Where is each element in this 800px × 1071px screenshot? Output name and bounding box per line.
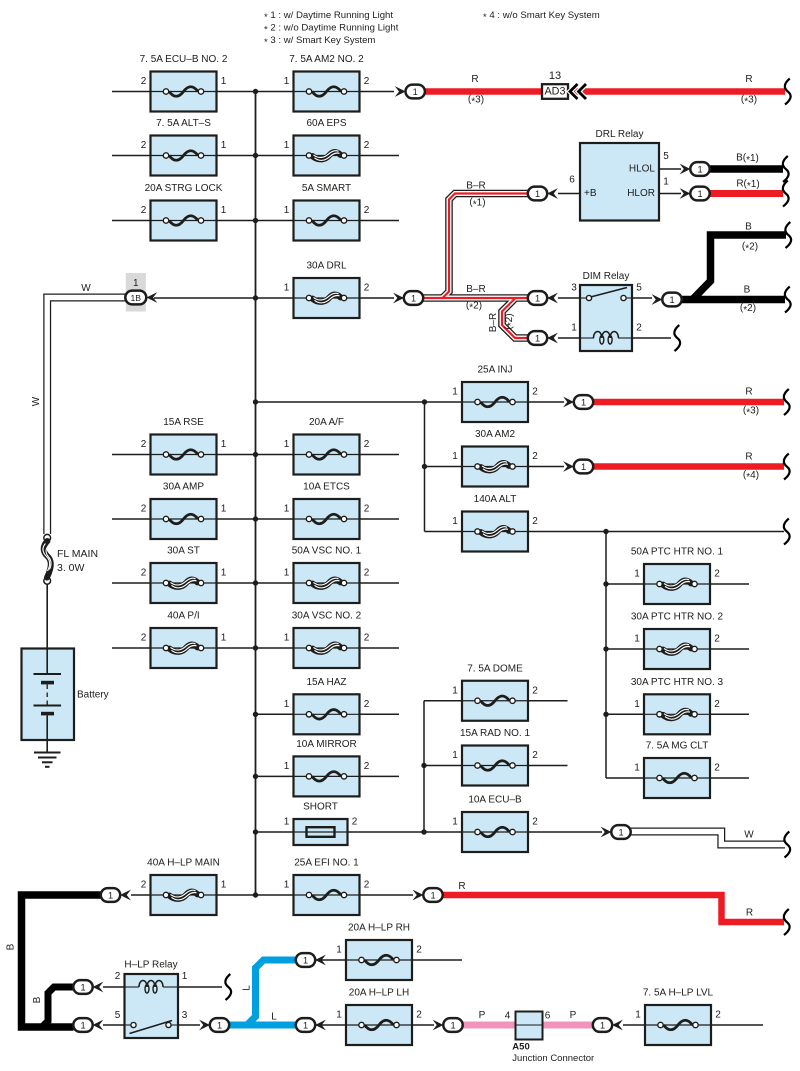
svg-text:50A PTC HTR NO. 1: 50A PTC HTR NO. 1 bbox=[631, 547, 724, 558]
wire H-LP LH input bbox=[316, 1024, 346, 1026]
wire row P-I/VSC2 bbox=[112, 647, 399, 649]
break R AM2 end bbox=[784, 454, 790, 480]
fuse F9 7. 5A AM2 NO. 2 bbox=[284, 54, 370, 112]
svg-text:W: W bbox=[31, 396, 42, 406]
fuse F22 30A AM2 bbox=[452, 429, 538, 487]
wire DRL fuse output to arrow bbox=[360, 297, 395, 299]
break R INJ end bbox=[784, 389, 790, 415]
svg-text:R: R bbox=[745, 452, 752, 463]
svg-text:7. 5A MG CLT: 7. 5A MG CLT bbox=[646, 741, 709, 752]
wire RAD input bbox=[424, 765, 462, 767]
svg-text:1: 1 bbox=[284, 439, 290, 450]
wire A50 internal bus bbox=[516, 1024, 543, 1026]
svg-text:2: 2 bbox=[141, 439, 147, 450]
svg-text:B: B bbox=[745, 222, 752, 233]
wire H-LP relay pin1 to break bbox=[178, 986, 222, 988]
svg-text:DIM Relay: DIM Relay bbox=[583, 271, 630, 282]
svg-text:R: R bbox=[746, 908, 753, 919]
connector 1 black to relay pin5 bbox=[73, 1018, 103, 1032]
svg-text:1: 1 bbox=[669, 295, 674, 305]
svg-text:AD3: AD3 bbox=[544, 86, 565, 98]
wire PTC2 input bbox=[606, 648, 644, 650]
fuse F24 7. 5A DOME bbox=[452, 663, 538, 721]
wire H-LP relay pin2 bbox=[103, 986, 125, 988]
wire R after 25A EFI bbox=[443, 895, 785, 922]
junction dot (255.5,776.4) bbox=[253, 774, 258, 779]
wire R (*3) after 25A INJ bbox=[593, 399, 784, 406]
svg-text:R: R bbox=[458, 881, 465, 892]
connector 1B with gray background bbox=[125, 273, 146, 312]
svg-text:2: 2 bbox=[364, 504, 370, 515]
junction dot (606,584) bbox=[603, 581, 608, 586]
svg-text:1: 1 bbox=[634, 569, 640, 580]
svg-text:HLOR: HLOR bbox=[627, 188, 655, 199]
svg-text:25A INJ: 25A INJ bbox=[477, 365, 512, 376]
connector 1 EFI red out bbox=[413, 888, 443, 902]
svg-text:B(*1): B(*1) bbox=[736, 153, 759, 166]
wire H-LP MAIN left to arrow bbox=[131, 894, 151, 896]
svg-text:P: P bbox=[570, 1010, 577, 1021]
fusible link FL MAIN 3.0W bbox=[43, 534, 98, 584]
wire H-LP MAIN right to bus bbox=[217, 894, 256, 896]
fuse F3 20A STRG LOCK bbox=[141, 183, 227, 241]
wire DRL relay pin1 HLOR bbox=[659, 193, 681, 195]
svg-text:1: 1 bbox=[430, 890, 435, 900]
fuse F26 10A ECU–B bbox=[452, 795, 538, 853]
junction dot (255.5,648) bbox=[253, 645, 258, 650]
battery bbox=[22, 649, 109, 741]
junction dot (255.5,714.3) bbox=[253, 712, 258, 717]
svg-text:(*2): (*2) bbox=[466, 300, 482, 313]
wire SHORT row to ECU-B bbox=[256, 831, 463, 833]
connector 1 AM2 red out bbox=[563, 460, 593, 474]
svg-text:DRL Relay: DRL Relay bbox=[596, 129, 644, 140]
svg-text:7. 5A ECU–B NO. 2: 7. 5A ECU–B NO. 2 bbox=[140, 54, 228, 65]
svg-text:20A STRG LOCK: 20A STRG LOCK bbox=[145, 183, 223, 194]
junction dot (606,531.5) bbox=[603, 529, 608, 534]
wire INJ output bbox=[529, 401, 565, 403]
connector 1 DRL fuse out bbox=[393, 291, 423, 305]
fuse F8 40A H–LP MAIN bbox=[141, 858, 227, 916]
wire row AMP/ETCS bbox=[112, 518, 399, 520]
svg-text:2: 2 bbox=[141, 504, 147, 515]
svg-text:2: 2 bbox=[364, 699, 370, 710]
svg-text:10A MIRROR: 10A MIRROR bbox=[296, 739, 357, 750]
svg-text:W: W bbox=[744, 830, 754, 841]
wire DIM relay pin5 bbox=[632, 297, 652, 299]
fuse F18 10A MIRROR bbox=[284, 739, 370, 797]
svg-text:1: 1 bbox=[284, 699, 290, 710]
ground symbol bbox=[34, 740, 61, 767]
fuse F30 7. 5A MG CLT bbox=[634, 741, 720, 799]
fuse F27 50A PTC HTR NO. 1 bbox=[631, 547, 724, 605]
fuse F29 30A PTC HTR NO. 3 bbox=[631, 677, 724, 735]
wire L blue from relay pin3 bbox=[229, 1022, 296, 1029]
connector 1 DRL HLOL out bbox=[680, 162, 710, 176]
wire EFI row from bus bbox=[256, 894, 361, 896]
svg-text:1: 1 bbox=[452, 817, 458, 828]
sub-bus C vertical PTC feed bbox=[605, 532, 607, 779]
connector 1 H-LP MAIN black out bbox=[101, 888, 131, 902]
svg-text:1: 1 bbox=[221, 504, 227, 515]
svg-text:3. 0W: 3. 0W bbox=[57, 562, 85, 574]
svg-text:7. 5A ALT–S: 7. 5A ALT–S bbox=[156, 118, 211, 129]
junction dot (424,765.5) bbox=[421, 763, 426, 768]
wire PTC2 output bbox=[711, 648, 750, 650]
svg-text:Battery: Battery bbox=[77, 690, 109, 701]
connector 1 row1 red out bbox=[395, 85, 425, 99]
junction dot (606,714.3) bbox=[603, 712, 608, 717]
break top red right end bbox=[785, 79, 791, 105]
svg-text:B: B bbox=[6, 943, 17, 950]
svg-text:30A ST: 30A ST bbox=[167, 546, 200, 557]
svg-text:1: 1 bbox=[581, 397, 586, 407]
wire PTC1 output bbox=[711, 583, 750, 585]
svg-text:1: 1 bbox=[634, 763, 640, 774]
svg-text:40A H–LP MAIN: 40A H–LP MAIN bbox=[147, 858, 220, 869]
svg-text:3: 3 bbox=[182, 1010, 188, 1021]
svg-text:B–R: B–R bbox=[466, 181, 485, 192]
svg-text:1: 1 bbox=[452, 685, 458, 696]
svg-text:15A RAD NO. 1: 15A RAD NO. 1 bbox=[460, 728, 530, 739]
junction dot (255.5,895) bbox=[253, 892, 258, 897]
wire row3 STRG/SMART bbox=[112, 220, 399, 222]
wire L blue branch up to H-LP RH bbox=[247, 960, 296, 1025]
fuse F19 SHORT bbox=[284, 802, 358, 846]
connector A50 junction connector bbox=[505, 1011, 594, 1065]
svg-text:+B: +B bbox=[584, 188, 597, 199]
svg-text:1: 1 bbox=[108, 890, 113, 900]
svg-text:1: 1 bbox=[284, 504, 290, 515]
fuse F10 60A EPS bbox=[284, 118, 370, 176]
svg-text:1: 1 bbox=[284, 817, 290, 828]
svg-text:1: 1 bbox=[221, 439, 227, 450]
fuse F32 20A H–LP LH bbox=[336, 988, 422, 1046]
wire H-LP LVL input bbox=[623, 1024, 645, 1026]
svg-text:1: 1 bbox=[284, 568, 290, 579]
svg-text:60A EPS: 60A EPS bbox=[306, 118, 346, 129]
fuse F31 20A H–LP RH bbox=[336, 923, 422, 981]
svg-text:1: 1 bbox=[221, 76, 227, 87]
junction dot (255.5,155.5) bbox=[253, 153, 258, 158]
svg-text:2: 2 bbox=[364, 140, 370, 151]
svg-text:R: R bbox=[471, 74, 478, 85]
wire R (*3) top red row1 left segment bbox=[424, 88, 542, 95]
break B (*2) upper right end bbox=[785, 222, 791, 248]
wire H-LP RH input bbox=[316, 959, 346, 961]
connector 1 blue to H-LP RH bbox=[296, 953, 326, 967]
svg-text:2: 2 bbox=[715, 1010, 721, 1021]
svg-text:(*2): (*2) bbox=[740, 303, 756, 316]
svg-text:1: 1 bbox=[697, 164, 702, 174]
wire P pink from A50 to oval bbox=[543, 1022, 594, 1029]
svg-text:5: 5 bbox=[636, 283, 642, 294]
svg-text:2: 2 bbox=[364, 568, 370, 579]
connector 1 pink to H-LP LVL bbox=[593, 1018, 623, 1032]
svg-text:2: 2 bbox=[532, 750, 538, 761]
fuse F14 10A ETCS bbox=[284, 482, 370, 540]
svg-text:(*2): (*2) bbox=[504, 313, 517, 329]
svg-text:B–R: B–R bbox=[488, 313, 499, 332]
fuse F21 25A INJ bbox=[452, 365, 538, 423]
svg-text:2: 2 bbox=[532, 451, 538, 462]
svg-text:2: 2 bbox=[364, 283, 370, 294]
svg-text:2: 2 bbox=[141, 880, 147, 891]
svg-text:1: 1 bbox=[221, 140, 227, 151]
wire main bus vertical bbox=[255, 92, 257, 896]
svg-text:1: 1 bbox=[663, 177, 669, 188]
wire B from H-LP MAIN down to H-LP relay bbox=[22, 895, 102, 1027]
svg-text:2: 2 bbox=[532, 817, 538, 828]
junction dot (424.5,466.5) bbox=[422, 464, 427, 469]
wire H-LP RH output stub bbox=[412, 959, 462, 961]
svg-text:1: 1 bbox=[535, 293, 540, 303]
wire H-LP relay pin3 to arrow bbox=[178, 1024, 200, 1026]
wire B(*1) from DRL HLOL bbox=[710, 165, 784, 173]
fuse F4 15A RSE bbox=[141, 417, 227, 475]
junction dot (255.5,91.5) bbox=[253, 89, 258, 94]
svg-text:1: 1 bbox=[571, 323, 577, 334]
connector 1 relay pin3 blue out bbox=[199, 1018, 229, 1032]
svg-text:1: 1 bbox=[450, 1020, 455, 1030]
wire ALT output long bbox=[529, 531, 785, 533]
break R(*1) end bbox=[783, 181, 789, 207]
fuse F13 20A A/F bbox=[284, 417, 370, 475]
wire EFI output bbox=[360, 894, 414, 896]
fuse F25 15A RAD NO. 1 bbox=[452, 728, 538, 786]
svg-text:140A ALT: 140A ALT bbox=[474, 494, 517, 505]
svg-text:2: 2 bbox=[714, 763, 720, 774]
break B (*2) lower right end bbox=[785, 287, 791, 313]
junction dot (255.5,298) bbox=[253, 295, 258, 300]
svg-text:13: 13 bbox=[549, 70, 561, 82]
connector 1 blue to H-LP LH bbox=[296, 1018, 326, 1032]
svg-text:1: 1 bbox=[221, 880, 227, 891]
wire PTC3 output bbox=[711, 713, 750, 715]
svg-text:2: 2 bbox=[364, 633, 370, 644]
wire row2 ALT-S/EPS bbox=[112, 155, 399, 157]
svg-text:2: 2 bbox=[714, 634, 720, 645]
svg-text:25A EFI NO. 1: 25A EFI NO. 1 bbox=[294, 858, 359, 869]
relay DRL Relay U1 bbox=[580, 129, 659, 221]
svg-text:15A RSE: 15A RSE bbox=[163, 417, 204, 428]
svg-text:P: P bbox=[479, 1010, 486, 1021]
svg-text:1: 1 bbox=[284, 205, 290, 216]
break ALT output end bbox=[784, 519, 790, 545]
svg-text:30A AMP: 30A AMP bbox=[163, 482, 204, 493]
wire ECU-B output bbox=[529, 831, 603, 833]
svg-text:2: 2 bbox=[141, 205, 147, 216]
connector 1 LH out pink bbox=[433, 1018, 463, 1032]
wire DOME output bbox=[529, 700, 568, 702]
break DIM pin2 wire end bbox=[674, 325, 680, 351]
svg-text:(*4): (*4) bbox=[743, 470, 759, 483]
wire DIM relay pin2 to break bbox=[632, 337, 671, 339]
svg-text:SHORT: SHORT bbox=[303, 802, 338, 813]
svg-text:7. 5A AM2 NO. 2: 7. 5A AM2 NO. 2 bbox=[289, 54, 364, 65]
wire H-LP relay pin5 bbox=[103, 1024, 125, 1026]
wire W from 1B connector bbox=[47, 298, 126, 535]
junction dot (424,832) bbox=[421, 829, 426, 834]
wire H-LP LH output bbox=[412, 1024, 434, 1026]
svg-text:4: 4 bbox=[505, 1011, 511, 1022]
svg-text:2: 2 bbox=[141, 633, 147, 644]
wire B branch to relay pin2 bbox=[42, 987, 74, 1027]
svg-text:1: 1 bbox=[634, 634, 640, 645]
wire B-R harness: (*1) branch to DRL +B, (*2) to DIM pin3, (*2) drop to DIM pin1 bbox=[423, 194, 528, 339]
svg-text:7. 5A H–LP LVL: 7. 5A H–LP LVL bbox=[643, 988, 714, 999]
svg-text:* 3 : w/ Smart Key System: * 3 : w/ Smart Key System bbox=[264, 35, 375, 48]
svg-text:* 4 : w/o Smart Key System: * 4 : w/o Smart Key System bbox=[483, 10, 600, 23]
wire B (*2) lower from DIM pin5 oval bbox=[682, 296, 786, 304]
wire MG CLT input elbow bbox=[606, 777, 644, 779]
wire MG CLT output bbox=[711, 777, 750, 779]
wire AM2 30A input bbox=[425, 466, 463, 468]
svg-text:2: 2 bbox=[352, 817, 358, 828]
fuse F17 15A HAZ bbox=[284, 677, 370, 735]
svg-text:R: R bbox=[745, 74, 752, 85]
connector 1 DIM pin5 out bbox=[652, 293, 682, 307]
svg-text:1: 1 bbox=[133, 278, 139, 289]
svg-text:(*1): (*1) bbox=[469, 197, 485, 210]
svg-text:1: 1 bbox=[284, 761, 290, 772]
svg-text:30A VSC NO. 2: 30A VSC NO. 2 bbox=[292, 611, 362, 622]
svg-text:2: 2 bbox=[364, 439, 370, 450]
svg-text:2: 2 bbox=[714, 699, 720, 710]
fuse F12 30A DRL bbox=[284, 261, 370, 319]
svg-text:20A H–LP LH: 20A H–LP LH bbox=[349, 988, 409, 999]
svg-text:1: 1 bbox=[284, 633, 290, 644]
junction dot (606,649) bbox=[603, 646, 608, 651]
fuse F28 30A PTC HTR NO. 2 bbox=[631, 612, 724, 670]
junction dot (424.5,402) bbox=[422, 399, 427, 404]
svg-text:1: 1 bbox=[80, 982, 85, 992]
svg-text:1: 1 bbox=[221, 205, 227, 216]
svg-text:B: B bbox=[744, 285, 751, 296]
wire ALT input elbow bbox=[425, 531, 463, 533]
junction dot (255.5,454.5) bbox=[253, 452, 258, 457]
svg-text:1: 1 bbox=[411, 293, 416, 303]
fuse F23 140A ALT bbox=[452, 494, 538, 552]
svg-text:1: 1 bbox=[284, 140, 290, 151]
connector 1 INJ red out bbox=[563, 395, 593, 409]
svg-text:2: 2 bbox=[115, 971, 121, 982]
svg-text:1: 1 bbox=[221, 568, 227, 579]
wire R (*4) after 30A AM2 bbox=[593, 463, 784, 470]
svg-text:B–R: B–R bbox=[466, 284, 485, 295]
svg-text:10A ECU–B: 10A ECU–B bbox=[468, 795, 522, 806]
break B(*1) end bbox=[783, 156, 789, 182]
svg-text:1: 1 bbox=[284, 76, 290, 87]
svg-text:2: 2 bbox=[532, 516, 538, 527]
svg-text:6: 6 bbox=[545, 1011, 551, 1022]
junction dot (255.5,832) bbox=[253, 829, 258, 834]
svg-text:B: B bbox=[32, 996, 43, 1003]
svg-text:1: 1 bbox=[221, 633, 227, 644]
svg-text:H–LP Relay: H–LP Relay bbox=[124, 960, 177, 971]
svg-text:2: 2 bbox=[636, 323, 642, 334]
wire PTC3 input bbox=[606, 713, 644, 715]
svg-text:1: 1 bbox=[452, 451, 458, 462]
junction dot (255.5,220.5) bbox=[253, 218, 258, 223]
junction dot (255.5,583) bbox=[253, 580, 258, 585]
wire MIRROR row bbox=[256, 775, 400, 777]
svg-text:5: 5 bbox=[115, 1010, 121, 1021]
fuse F5 30A AMP bbox=[141, 482, 227, 540]
sub-bus B vertical DOME/RAD/ECU-B feed bbox=[423, 701, 425, 832]
svg-text:1: 1 bbox=[413, 87, 418, 97]
svg-text:1: 1 bbox=[336, 945, 342, 956]
svg-text:1: 1 bbox=[452, 750, 458, 761]
svg-text:3: 3 bbox=[571, 283, 577, 294]
wire HAZ row bbox=[256, 713, 400, 715]
svg-text:2: 2 bbox=[364, 205, 370, 216]
svg-text:20A H–LP RH: 20A H–LP RH bbox=[348, 923, 410, 934]
svg-text:2: 2 bbox=[364, 880, 370, 891]
relay H-LP Relay U3 bbox=[124, 960, 178, 1039]
svg-text:2: 2 bbox=[141, 568, 147, 579]
wire RAD output bbox=[529, 765, 568, 767]
wire DIM relay pin1 bbox=[558, 337, 580, 339]
wire R (*3) top red row1 right segment bbox=[568, 88, 785, 95]
wire P pink from LH oval to A50 bbox=[462, 1022, 516, 1029]
svg-text:1: 1 bbox=[535, 333, 540, 343]
svg-text:2: 2 bbox=[416, 945, 422, 956]
break R EFI end bbox=[784, 909, 790, 935]
svg-text:(*2): (*2) bbox=[742, 241, 758, 254]
connector 1 DRL HLOR out bbox=[680, 187, 710, 201]
svg-text:2: 2 bbox=[532, 387, 538, 398]
wire AM2 30A output bbox=[529, 466, 565, 468]
svg-text:(*3): (*3) bbox=[741, 94, 757, 107]
connector 1 B-R to DIM pin3 bbox=[528, 291, 558, 305]
wire H-LP LVL output stub bbox=[711, 1024, 764, 1026]
svg-text:1: 1 bbox=[80, 1020, 85, 1030]
connector 1 black to relay pin2 bbox=[73, 980, 103, 994]
svg-text:1: 1 bbox=[217, 1020, 222, 1030]
svg-text:5A SMART: 5A SMART bbox=[302, 183, 351, 194]
svg-text:20A A/F: 20A A/F bbox=[309, 417, 344, 428]
svg-text:2: 2 bbox=[532, 685, 538, 696]
svg-text:1: 1 bbox=[336, 1010, 342, 1021]
svg-text:1: 1 bbox=[635, 1010, 641, 1021]
wire row RSE/AF bbox=[112, 454, 399, 456]
wire R(*1) from DRL HLOR bbox=[710, 190, 784, 197]
break H-LP relay pin1 wire end bbox=[225, 974, 231, 1000]
wire PTC1 input bbox=[606, 583, 644, 585]
svg-text:FL MAIN: FL MAIN bbox=[57, 548, 98, 560]
svg-text:W: W bbox=[81, 283, 91, 294]
svg-text:40A P/I: 40A P/I bbox=[167, 611, 199, 622]
relay DIM Relay U2 bbox=[580, 271, 632, 351]
svg-text:Junction Connector: Junction Connector bbox=[512, 1053, 594, 1064]
wire INJ row from bus bbox=[256, 401, 463, 403]
svg-text:1: 1 bbox=[303, 1020, 308, 1030]
wire FL MAIN to battery bbox=[46, 584, 48, 651]
fuse F1 7. 5A ECU–B NO. 2 bbox=[140, 54, 228, 112]
wire DRL relay pin5 HLOL bbox=[659, 168, 681, 170]
connector 1 ECU-B W out bbox=[601, 825, 631, 839]
svg-text:A50: A50 bbox=[512, 1042, 529, 1053]
fuse F15 50A VSC NO. 1 bbox=[284, 546, 370, 604]
svg-text:R: R bbox=[745, 387, 752, 398]
fuse F20 25A EFI NO. 1 bbox=[284, 858, 370, 916]
wire DIM relay pin3 bbox=[558, 297, 580, 299]
svg-text:1: 1 bbox=[452, 516, 458, 527]
svg-text:2: 2 bbox=[714, 569, 720, 580]
svg-text:1: 1 bbox=[634, 699, 640, 710]
svg-text:30A DRL: 30A DRL bbox=[306, 261, 346, 272]
